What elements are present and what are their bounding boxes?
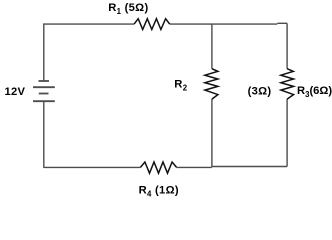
svg-text:R3(6Ω): R3(6Ω)	[297, 85, 332, 99]
svg-text:R1 (5Ω): R1 (5Ω)	[108, 2, 148, 16]
svg-text:(3Ω): (3Ω)	[248, 85, 272, 97]
svg-text:12V: 12V	[5, 86, 26, 98]
svg-text:R4 (1Ω): R4 (1Ω)	[139, 185, 179, 199]
svg-text:R2: R2	[174, 79, 187, 93]
